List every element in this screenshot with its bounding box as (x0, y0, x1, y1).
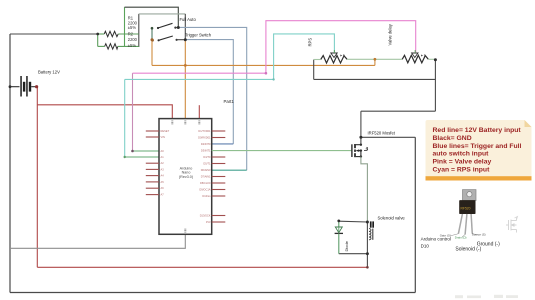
wire: battery red vertical (36, 87, 38, 268)
svg-text:D5/T1: D5/T1 (203, 162, 211, 166)
wire: horizontal to drain (361, 110, 436, 112)
solenoid valve L1 (369, 221, 374, 239)
Arduino Nano U1 body (159, 119, 212, 235)
wire: pot bottom black line (314, 78, 436, 80)
svg-text:Valve delay: Valve delay (388, 23, 393, 45)
transistor Q1 IRF520 mosfet symbol (352, 144, 368, 158)
svg-text:Diode: Diode (344, 240, 349, 251)
svg-text:Blue lines= Trigger and Full: Blue lines= Trigger and Full (433, 143, 522, 150)
switch S1 Full Auto (151, 23, 179, 29)
Arduino left pin stubs (146, 131, 159, 195)
svg-text:A1: A1 (161, 155, 165, 159)
TO-220 package picture (451, 190, 478, 237)
svg-text:►b: ►b (340, 53, 345, 57)
resistor R2 (105, 44, 118, 49)
wire: green stub into A1 (125, 156, 159, 158)
wire: gate green from D3 (212, 150, 352, 152)
svg-text:Source (S): Source (S) (472, 232, 486, 236)
pot RPS wiper arrow (331, 53, 337, 58)
svg-text:A5: A5 (161, 180, 165, 184)
svg-text:D13/SCK: D13/SCK (200, 214, 211, 218)
switch S2 Trigger Switch (151, 36, 185, 42)
wire: Full Auto into pin D7 teal (212, 169, 247, 171)
wire: top border to resistor junction (10, 33, 98, 35)
wire: R2 leads green (97, 34, 99, 46)
wire: vertical into trigger right terminal (184, 14, 186, 40)
svg-text:D10/ss: D10/ss (202, 194, 211, 198)
wire: pink rail valve delay (133, 21, 416, 73)
svg-text:Part1: Part1 (224, 99, 235, 104)
svg-text:Black= GND: Black= GND (433, 135, 472, 142)
wire: bottom link diode to solenoid (339, 253, 368, 255)
svg-text:A7: A7 (161, 193, 165, 197)
svg-text:VIN: VIN (161, 135, 165, 139)
wire: solenoid to red rail (366, 254, 368, 268)
wire: Full Auto output blue line (178, 27, 246, 170)
svg-text:R2: R2 (128, 31, 134, 36)
wire: switch commons to orange rail (151, 28, 153, 40)
wire: outer border left (GND net) (9, 34, 11, 293)
svg-text:D10: D10 (421, 244, 430, 249)
svg-text:RESET: RESET (161, 129, 170, 133)
svg-text:3V3: 3V3 (206, 220, 211, 224)
wire: pink drop to pin A0 (132, 73, 134, 151)
svg-text:D9/OC1A: D9/OC1A (199, 188, 210, 192)
wire: pot1 leads (314, 59, 321, 61)
svg-text:A0: A0 (161, 149, 165, 153)
wire: Trigger output blue line (185, 40, 233, 144)
Arduino left pin labels (161, 129, 170, 197)
wire: pot2 right lead (428, 58, 435, 60)
wire: outer border bottom (10, 292, 415, 294)
svg-text:D7/AIN1: D7/AIN1 (201, 175, 211, 179)
note box text (433, 127, 522, 174)
wire: R1 leads green (98, 33, 105, 35)
svg-text:auto switch input: auto switch input (433, 151, 490, 158)
wire: red stub to 5V top pin (198, 105, 200, 118)
wire: gray GND from Arduino bottom pin (10, 234, 185, 248)
svg-text:D6/AIN0: D6/AIN0 (201, 168, 211, 172)
svg-text:Solenoid valve: Solenoid valve (378, 215, 406, 220)
svg-text:A4: A4 (161, 174, 165, 178)
wire: solenoid vertical (366, 222, 368, 254)
svg-text:Arduino control: Arduino control (421, 237, 451, 242)
wire: red bottom rail (37, 266, 367, 268)
svg-text:Battery 12V: Battery 12V (38, 70, 60, 75)
pot2 wiper arrow (412, 53, 418, 58)
battery BT1 12V (10, 76, 36, 97)
svg-text:A3: A3 (161, 167, 165, 171)
wire: resistor junction to trigger vertical (139, 13, 186, 15)
wire: mosfet source jog down (361, 157, 368, 222)
diode D1 (335, 221, 343, 254)
wire: pot2 right drop to mosfet line (434, 59, 436, 111)
wire: top link diode to solenoid (339, 220, 368, 223)
svg-text:Pink = Valve delay: Pink = Valve delay (433, 159, 492, 166)
wire: pot1 left terminal drop (313, 60, 315, 80)
junction node dots (96, 33, 99, 36)
Arduino top pin marks (171, 121, 200, 233)
svg-text:Drain (D): Drain (D) (455, 235, 467, 239)
potentiometer Valve delay (402, 55, 428, 63)
wire: cyan drop to pin A1 (124, 79, 126, 157)
svg-text:±5%: ±5% (128, 43, 137, 48)
note box annotation (426, 120, 532, 181)
potentiometer RPS (321, 56, 347, 64)
wire: orange stub to pot junction (374, 59, 376, 65)
wire: orange drop to Arduino top pin (184, 40, 186, 119)
wire: resistor top loop to Full Auto switch (124, 7, 126, 46)
faint watermark bottom right (455, 295, 518, 298)
Arduino right pin stubs (212, 131, 226, 222)
svg-text:D8/CLK0: D8/CLK0 (200, 181, 211, 185)
resistor R1 (104, 31, 118, 36)
svg-text:Solenoid (-): Solenoid (-) (455, 247, 481, 253)
svg-text:D4/T0: D4/T0 (203, 155, 211, 159)
wire: red to VIN top pin (37, 105, 172, 119)
svg-text:RF520: RF520 (461, 207, 471, 211)
svg-text:(Rev3.0): (Rev3.0) (179, 175, 193, 179)
svg-text:D2/INT0: D2/INT0 (201, 142, 211, 146)
svg-text:A6: A6 (161, 186, 165, 190)
Arduino right pin labels (198, 129, 211, 224)
svg-text:D1/TXD01: D1/TXD01 (198, 129, 211, 133)
wire: outer border right (414, 137, 416, 292)
label R1 R2 values (128, 16, 138, 48)
wire: green stub into A0 (133, 150, 160, 152)
wire: orange rail horizontal (152, 64, 375, 66)
label Arduino Nano (179, 167, 193, 179)
svg-text:Full Auto: Full Auto (180, 17, 197, 22)
svg-text:D3/INT1: D3/INT1 (201, 149, 211, 153)
faint mosfet sketch (506, 217, 518, 233)
svg-text:D0/RXD01: D0/RXD01 (198, 136, 211, 140)
svg-text:RPS: RPS (308, 38, 313, 47)
svg-text:Trigger Switch: Trigger Switch (185, 33, 212, 38)
svg-text:Cyan = RPS input: Cyan = RPS input (433, 167, 491, 174)
svg-text:►b: ►b (420, 53, 425, 57)
wire: Trigger into pin D2 blue (212, 143, 234, 145)
svg-text:IRF520 Mosfet: IRF520 Mosfet (368, 131, 396, 136)
svg-text:2200: 2200 (128, 37, 138, 42)
wire: drain to right border (361, 136, 415, 138)
svg-text:Red line= 12V Battery input: Red line= 12V Battery input (433, 127, 522, 134)
wire: drain vertical (360, 111, 362, 145)
svg-text:±5%: ±5% (128, 25, 137, 30)
wire: resistor right junction vertical (138, 14, 140, 47)
wire: cyan rail RPS (125, 34, 335, 80)
svg-text:A2: A2 (161, 161, 165, 165)
wire: orange vertical from switch common (151, 40, 153, 66)
